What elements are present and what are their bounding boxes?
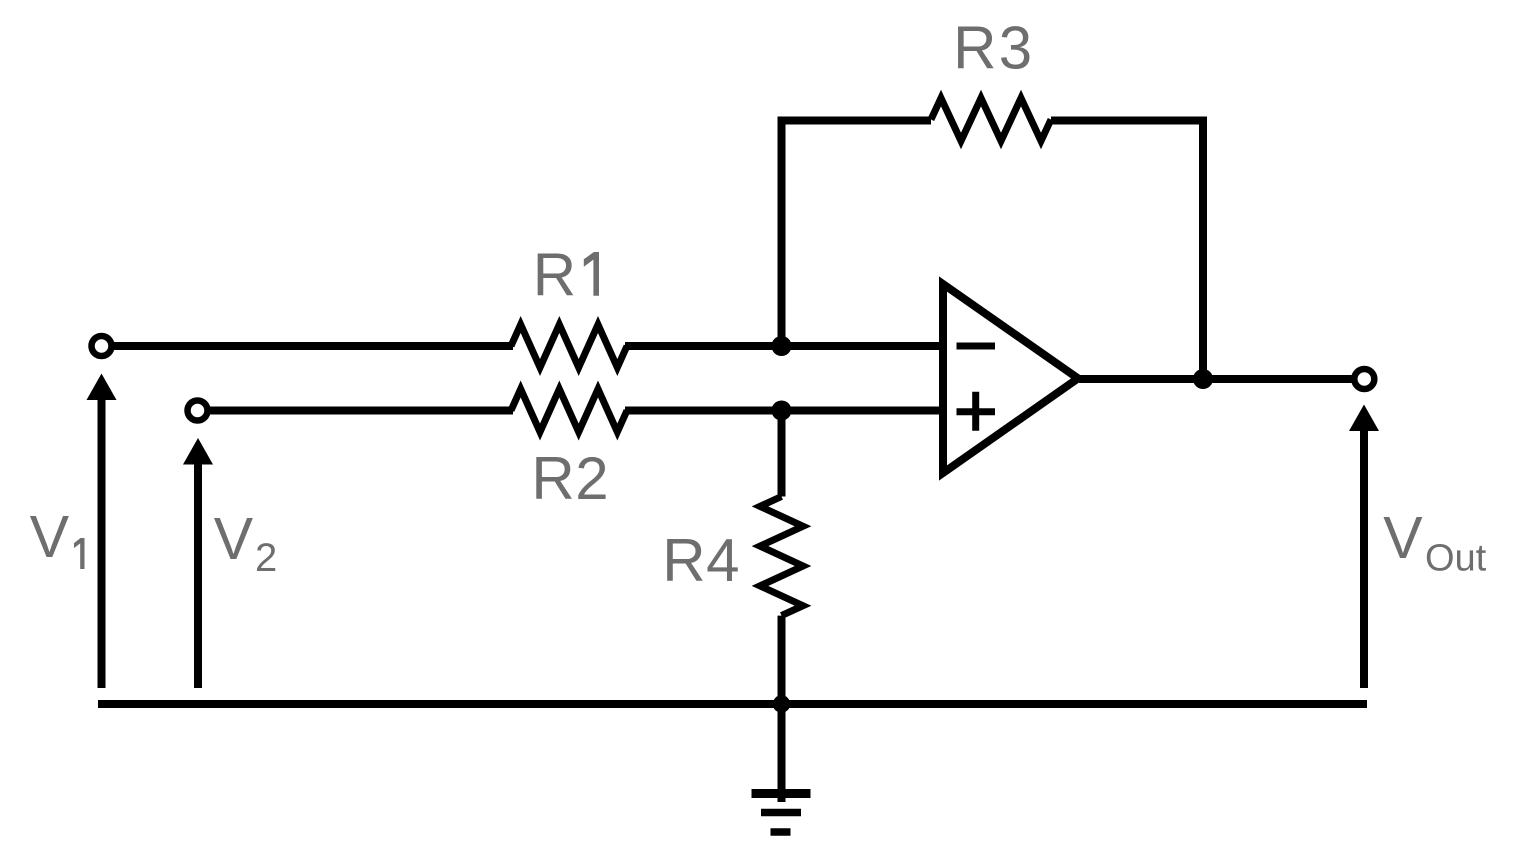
- svg-text:3: 3: [999, 15, 1032, 82]
- terminal V2: [188, 401, 208, 421]
- wire output: [1079, 375, 1364, 383]
- label R3: [953, 15, 1032, 82]
- svg-text:V: V: [1383, 505, 1423, 571]
- ground symbol: [752, 704, 811, 832]
- svg-text:4: 4: [706, 527, 739, 594]
- svg-text:2: 2: [575, 445, 608, 512]
- wire ground bus: [98, 700, 1367, 708]
- label V1: [30, 504, 85, 570]
- resistor R4: [760, 497, 803, 616]
- arrow VOut: [1349, 405, 1379, 689]
- resistor R1: [511, 325, 627, 368]
- wire feedback left vertical from node A up to R3: [782, 121, 932, 347]
- arrow V2: [183, 438, 213, 688]
- svg-text:V: V: [214, 506, 254, 572]
- wire V2 input line: [198, 407, 514, 415]
- node output junction dot: [1193, 369, 1213, 389]
- terminal V1: [92, 336, 112, 356]
- wire feedback right from R3 down to output node: [1051, 121, 1203, 380]
- node A junction dot (feedback / R1): [772, 336, 792, 356]
- arrow V1: [87, 374, 117, 689]
- wire R1 to op-amp inverting input: [625, 342, 943, 350]
- resistor R2: [511, 389, 627, 432]
- svg-text:R: R: [953, 15, 996, 82]
- svg-text:R: R: [662, 527, 705, 594]
- label R2: [531, 445, 608, 512]
- label R4: [662, 527, 739, 594]
- label VOut: [1383, 505, 1486, 571]
- wire R4 bottom stub: [778, 616, 786, 704]
- svg-text:R: R: [533, 242, 576, 309]
- label R1: [533, 242, 599, 309]
- node B junction dot (R2 / R4): [772, 401, 792, 421]
- terminal output: [1354, 369, 1374, 389]
- resistor R3: [931, 98, 1051, 141]
- wire R2 to op-amp non-inverting input: [625, 407, 943, 415]
- op-amp inverting input minus sign: [957, 343, 996, 350]
- wire V1 input line: [102, 342, 514, 350]
- label V2: [214, 506, 275, 572]
- svg-text:V: V: [30, 504, 70, 570]
- op-amp non-inverting input plus sign: [957, 392, 996, 431]
- op-amp U1: [943, 284, 1078, 473]
- wire R4 top stub: [778, 411, 786, 497]
- svg-text:R: R: [531, 445, 574, 512]
- node ground junction dot: [773, 695, 791, 713]
